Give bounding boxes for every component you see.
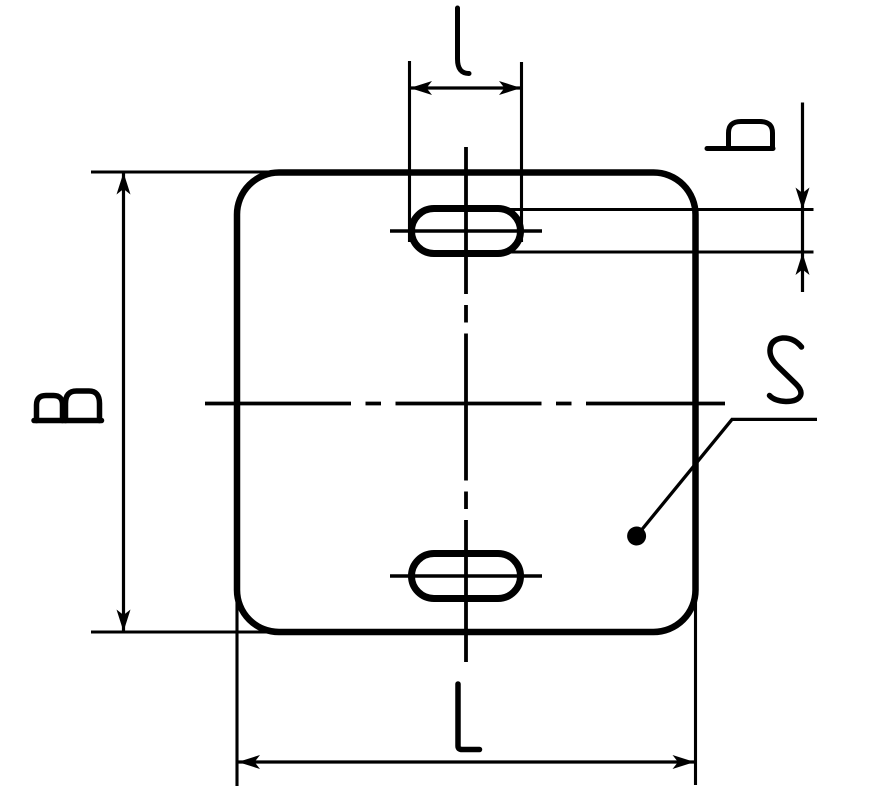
dimension L line: [237, 760, 696, 763]
dimension b arrow down: [796, 188, 810, 210]
dimension L extension line left: [235, 580, 238, 786]
label L: [458, 684, 480, 750]
leader line S: [637, 419, 817, 536]
dimension l extension line left: [408, 61, 411, 242]
dimension L arrow left: [238, 755, 260, 769]
leader dot: [627, 527, 646, 546]
horizontal centerline: [205, 402, 725, 406]
label b (rotated): [707, 122, 773, 149]
dimension b bottom line: [508, 251, 814, 254]
top slot: [412, 209, 521, 254]
dimension l line: [410, 86, 522, 89]
dimension l arrow left: [410, 81, 432, 95]
dimension b arrow up: [796, 253, 810, 275]
label l: [458, 8, 470, 74]
bottom slot: [412, 554, 521, 599]
dimension B line: [122, 172, 125, 632]
dimension l extension line right: [520, 62, 523, 242]
dimension L arrow right: [673, 755, 695, 769]
dimension l arrow right: [499, 81, 521, 95]
dimension L extension line right: [694, 580, 697, 785]
dimension b top line: [508, 208, 814, 211]
label B (rotated): [34, 391, 102, 421]
dimension b vertical line: [801, 103, 804, 293]
vertical centerline: [464, 147, 468, 662]
label S: [770, 338, 802, 402]
top slot centerline: [390, 229, 542, 233]
dimension B arrow up: [117, 173, 131, 195]
dimension B arrow down: [117, 610, 131, 632]
bottom slot centerline: [390, 574, 542, 578]
plate outline: [237, 173, 696, 633]
dimension B top extension line: [91, 170, 285, 173]
dimension B bottom extension line: [91, 630, 290, 633]
